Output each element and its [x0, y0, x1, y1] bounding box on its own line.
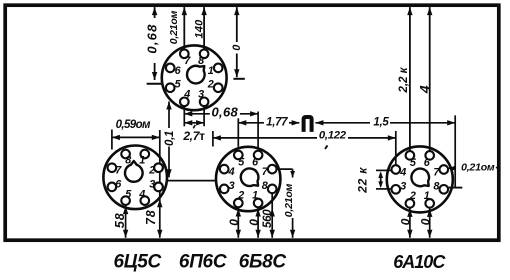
- pin 6: [425, 151, 434, 160]
- svg-text:0,68: 0,68: [212, 104, 239, 119]
- pin 6: [166, 64, 175, 73]
- svg-text:7: 7: [184, 55, 191, 67]
- svg-text:0: 0: [227, 219, 241, 226]
- svg-text:6: 6: [115, 178, 122, 190]
- redrawn pin2 pin3 6Ц5С: [154, 163, 163, 191]
- svg-text:8: 8: [125, 154, 131, 166]
- dimension line 1,5: [315, 120, 455, 125]
- svg-text:0,21ом: 0,21ом: [461, 162, 495, 174]
- svg-text:6А10С: 6А10С: [393, 252, 446, 272]
- svg-text:4: 4: [399, 167, 406, 179]
- wire pin7 6П6С to chassis: [182, 7, 187, 49]
- socket rim: [387, 146, 453, 212]
- label 0,68: [145, 23, 160, 53]
- svg-text:3: 3: [229, 180, 235, 192]
- extension line pin2 6Ц5С long: [157, 130, 162, 238]
- label 1,77: [266, 117, 288, 129]
- label 0,21ом 6Б8С: [283, 183, 295, 217]
- socket rim: [103, 146, 167, 210]
- extension line pin4 6П6С: [183, 106, 185, 127]
- wire pin5 6Ц5С to chassis: [123, 205, 128, 238]
- svg-text:6: 6: [175, 65, 182, 77]
- tube socket 6Ц5С: [103, 146, 167, 210]
- label 0,1: [164, 131, 176, 146]
- pin 7: [440, 165, 449, 174]
- pin 3: [392, 185, 401, 194]
- pin 3: [200, 98, 209, 107]
- svg-text:2,2 к: 2,2 к: [398, 66, 410, 93]
- extension line pin3 6П6С: [203, 106, 205, 127]
- svg-text:3: 3: [198, 88, 204, 100]
- svg-text:0,1: 0,1: [164, 131, 176, 146]
- pin 1: [141, 150, 150, 159]
- wire label to frame: [496, 167, 499, 169]
- svg-text:6: 6: [252, 156, 259, 168]
- svg-text:2: 2: [207, 79, 214, 91]
- pin 4: [220, 165, 229, 174]
- label 78: [144, 209, 158, 225]
- svg-text:6Ц5С: 6Ц5С: [113, 251, 161, 272]
- pin 2: [214, 83, 223, 92]
- pin 2: [234, 199, 243, 208]
- pin 2: [154, 163, 163, 172]
- pin 7: [108, 163, 117, 172]
- wire measurement 0,68 to chassis: [152, 7, 157, 80]
- label 6А10С: [393, 252, 446, 272]
- svg-text:0,68: 0,68: [145, 23, 160, 53]
- svg-text:22 к: 22 к: [355, 167, 369, 194]
- wire pin5 6А10С to chassis top: [407, 7, 412, 151]
- svg-text:0: 0: [418, 218, 432, 225]
- wire measurement 0,1: [166, 102, 171, 178]
- pin 5: [406, 151, 415, 160]
- svg-text:1: 1: [208, 65, 214, 77]
- pin 5: [166, 83, 175, 92]
- svg-text:2,7т: 2,7т: [182, 129, 205, 143]
- svg-text:78: 78: [144, 209, 158, 225]
- svg-text:8: 8: [262, 180, 268, 192]
- pin 6: [254, 151, 263, 160]
- svg-text:0,21ом: 0,21ом: [283, 183, 295, 217]
- label 0,21ом 6А10С: [461, 162, 495, 174]
- keyed center hole: [125, 161, 143, 182]
- keyed center hole: [241, 168, 259, 186]
- svg-text:8: 8: [433, 180, 439, 192]
- extension line pin7 6Ц5С: [111, 130, 113, 150]
- svg-text:1: 1: [424, 190, 430, 202]
- dimension line 0,59ом: [112, 135, 160, 140]
- svg-text:6П6С: 6П6С: [179, 251, 227, 272]
- label 0 pin1 6Б8С: [247, 219, 261, 226]
- svg-text:5: 5: [125, 188, 132, 200]
- svg-text:0: 0: [399, 218, 413, 225]
- pin 8: [440, 185, 449, 194]
- svg-text:4: 4: [138, 188, 145, 200]
- label 22 к: [355, 167, 369, 194]
- svg-text:5: 5: [238, 156, 245, 168]
- pin 3: [220, 185, 229, 194]
- extension line pin5 6Б8С: [237, 118, 239, 147]
- tube socket 6П6С: [162, 45, 227, 110]
- dimension line 0,122: [213, 135, 396, 140]
- svg-text:0,21ом: 0,21ом: [168, 10, 180, 44]
- pin 5: [121, 196, 130, 205]
- extension line pin4 6А10С: [395, 131, 397, 166]
- pin 4: [141, 196, 150, 205]
- pin 2: [406, 199, 415, 208]
- svg-text:5: 5: [175, 79, 182, 91]
- label 0,21ом: [168, 10, 180, 44]
- svg-text:1,77: 1,77: [266, 117, 288, 129]
- svg-text:4: 4: [228, 166, 235, 178]
- tube socket 6А10С: [387, 146, 453, 212]
- wire pin8 6Б8С to chassis: [270, 193, 275, 238]
- bracket 22к arrows: [378, 171, 383, 188]
- label 4: [416, 85, 432, 94]
- label 2,7т: [182, 129, 205, 143]
- svg-text:1: 1: [139, 154, 145, 166]
- svg-text:0,122: 0,122: [319, 129, 347, 141]
- bracket 22к lower stub: [376, 188, 391, 190]
- pin 4: [180, 98, 189, 107]
- dimension line 2,7т: [184, 120, 204, 128]
- pin 8: [121, 150, 130, 159]
- svg-text:58: 58: [113, 213, 127, 229]
- pin 3: [154, 183, 163, 192]
- svg-text:6Б8С: 6Б8С: [239, 251, 287, 272]
- jumper link symbol: [304, 117, 312, 132]
- svg-text:4: 4: [416, 85, 432, 94]
- pin 6: [108, 183, 117, 192]
- wire pin1 6Б8С to chassis: [255, 207, 260, 238]
- label 0,68 mid: [212, 104, 239, 119]
- label 0 pin2 6А10С: [399, 218, 413, 225]
- dimension line 1,77: [238, 120, 299, 125]
- label 0: [231, 44, 243, 51]
- speck: [325, 145, 328, 149]
- pin 1: [254, 199, 263, 208]
- extension line left of 0,122: [212, 131, 214, 147]
- wire pin2 6Б8С to chassis: [236, 207, 241, 238]
- bracket arrow to pin7 6А10С: [448, 166, 455, 171]
- wire pin6 6А10С to chassis top: [427, 7, 432, 151]
- svg-text:7: 7: [433, 167, 440, 179]
- label 6Ц5С: [113, 251, 161, 272]
- svg-text:2: 2: [409, 190, 416, 202]
- label 6П6С: [179, 251, 227, 272]
- wire pin7 6Б8С corner: [276, 169, 295, 177]
- svg-text:4: 4: [183, 88, 190, 100]
- pin 5: [234, 151, 243, 160]
- tube socket 6Б8С: [216, 147, 280, 211]
- label 58: [113, 213, 127, 229]
- svg-text:5: 5: [410, 157, 417, 169]
- wire stub at 6П6С left: [147, 83, 163, 85]
- svg-text:1: 1: [252, 190, 258, 202]
- wire pin1 6А10С to chassis: [427, 208, 432, 238]
- wire measurement 0 right of 6П6С: [233, 7, 244, 79]
- bracket 22к upper stub: [376, 169, 391, 171]
- label 1,5: [373, 116, 389, 128]
- keyed center hole: [411, 169, 429, 187]
- bracket tick at pin8 6А10С: [448, 187, 463, 189]
- dimension line 0,68 mid: [184, 111, 258, 116]
- label 560: [262, 209, 274, 228]
- pin 7: [180, 50, 189, 59]
- svg-text:6: 6: [424, 157, 431, 169]
- label 0,122: [319, 129, 347, 141]
- label 140: [193, 19, 205, 39]
- socket rim: [162, 45, 227, 110]
- bracket 0,21ом vertical: [454, 115, 456, 188]
- svg-text:560: 560: [262, 209, 274, 228]
- svg-text:2: 2: [237, 190, 244, 202]
- svg-text:140: 140: [193, 19, 205, 39]
- pin 8: [268, 185, 277, 194]
- svg-text:7: 7: [262, 166, 269, 178]
- socket rim: [216, 147, 280, 211]
- label 6Б8С: [239, 251, 287, 272]
- pin 7: [268, 165, 277, 174]
- wire measurement 0,21ом 6Б8С to chassis: [290, 218, 295, 238]
- pin 4: [392, 165, 401, 174]
- pin 1: [214, 64, 223, 73]
- svg-text:0,59ом: 0,59ом: [116, 119, 151, 131]
- keyed center hole: [187, 66, 205, 84]
- svg-text:3: 3: [400, 180, 406, 192]
- svg-text:8: 8: [198, 55, 204, 67]
- pin 8: [200, 50, 209, 59]
- extension line pin6 6Б8С: [257, 112, 259, 148]
- label 0 pin1 6А10С: [418, 218, 432, 225]
- wire pin8 6П6С to chassis: [201, 7, 206, 49]
- wire 6Ц5С to 6Б8С: [167, 180, 216, 182]
- label 0 pin2 6Б8С: [227, 219, 241, 226]
- svg-text:0: 0: [247, 219, 261, 226]
- pin 1: [425, 199, 434, 208]
- wire pin2 6А10С to chassis: [407, 208, 412, 238]
- svg-text:1,5: 1,5: [373, 116, 389, 128]
- label 0,59ом: [116, 119, 151, 131]
- label 2,2к: [398, 66, 410, 93]
- svg-text:7: 7: [115, 164, 122, 176]
